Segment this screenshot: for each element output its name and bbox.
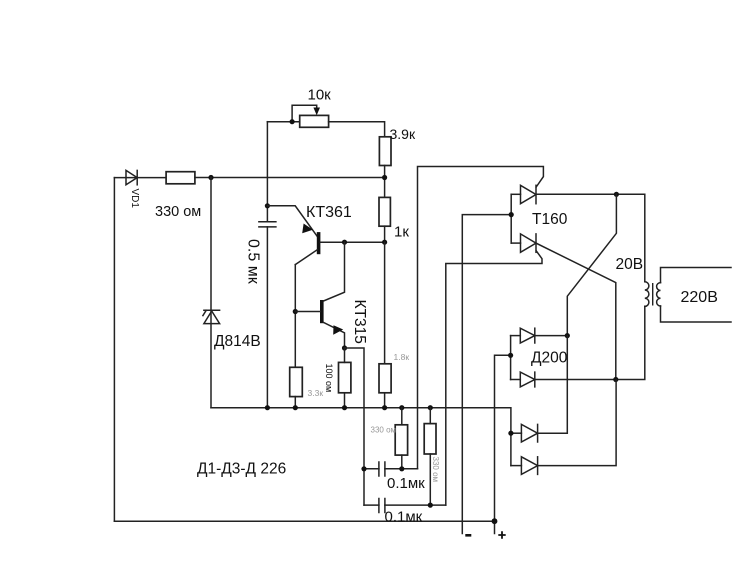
svg-text:1к: 1к (394, 224, 409, 241)
node cap2 330b (428, 503, 433, 508)
zener D814V (203, 310, 220, 323)
wire gate1 riser (418, 167, 544, 469)
svg-text:КТ361: КТ361 (306, 204, 352, 221)
wire 330a leads (401, 408, 403, 469)
wire 100om leads (344, 348, 346, 408)
wire cross link upper to D200 cathode (567, 194, 616, 335)
diode bridge 4 (511, 380, 616, 475)
svg-text:Т160: Т160 (532, 211, 568, 228)
svg-text:1.8к: 1.8к (394, 352, 410, 362)
wire 1.8k leads (384, 242, 386, 408)
node D200 anode (508, 353, 513, 358)
node rail 330a (399, 405, 404, 410)
svg-text:0.1мк: 0.1мк (385, 509, 423, 526)
diode VD1 (126, 170, 137, 184)
thyristor T160 upper (511, 185, 536, 203)
node cap1 330a (399, 466, 404, 471)
node divider top (382, 175, 387, 180)
wire thyristor anode rail (462, 194, 511, 533)
potentiometer 10k (267, 105, 384, 137)
svg-text:3.9к: 3.9к (390, 126, 416, 142)
node base-collector tie (342, 240, 347, 245)
node rail 330b (428, 405, 433, 410)
node KT315 emitter (342, 345, 347, 350)
label minus (465, 534, 471, 537)
wire gate2 riser (446, 251, 542, 505)
wire cap1 left (364, 468, 379, 470)
resistor 330 om b (424, 424, 436, 454)
wire pot left leg down (266, 122, 268, 222)
node plus junction (492, 518, 498, 524)
wire zener branch vertical (210, 178, 212, 408)
transistor KT315 (295, 242, 344, 348)
node cap1 left (361, 466, 366, 471)
wire cap1 right to gate1 (385, 468, 418, 470)
node diode3 anode (508, 431, 513, 436)
wire bottom plus bus (114, 520, 494, 522)
svg-text:10к: 10к (308, 87, 332, 104)
transistor KT361 (295, 224, 384, 265)
node D200 upper cathode (565, 333, 570, 338)
svg-text:100 ом: 100 ом (324, 364, 334, 393)
svg-text:330 ом: 330 ом (371, 426, 397, 435)
node rail 1.8k (382, 405, 387, 410)
svg-text:330 ом: 330 ом (431, 457, 440, 483)
resistor 1.8k (379, 364, 391, 393)
svg-text:Д814В: Д814В (214, 333, 261, 350)
svg-text:КТ315: КТ315 (351, 300, 368, 344)
node pot wiper tie (290, 119, 295, 124)
wire D200 anode rail to plus (495, 336, 511, 534)
label plus (498, 531, 505, 538)
wire 330b leads (429, 408, 431, 505)
wire cathode1 to winding (536, 194, 645, 281)
transformer primary winding (645, 282, 649, 307)
wire left outer vertical (113, 178, 115, 522)
thyristor T160 lower (511, 234, 536, 252)
svg-text:220В: 220В (681, 289, 718, 306)
svg-text:VD1: VD1 (129, 189, 140, 209)
node cathode1 (614, 192, 619, 197)
node KT315 base (293, 309, 298, 314)
wire cathode2 diagonal (536, 243, 616, 379)
wire ground rail (211, 408, 511, 466)
transformer core (652, 283, 654, 306)
wire emitter to caps column (345, 348, 365, 505)
capacitor 0.5 mk (259, 222, 276, 227)
resistor 3.3k (290, 367, 303, 396)
wire cap2 right to gate2 (385, 504, 446, 506)
transformer secondary winding (657, 283, 661, 306)
wire top-left through VD1 (114, 177, 166, 179)
svg-text:20В: 20В (616, 256, 644, 273)
svg-text:Д1-Д3-Д 226: Д1-Д3-Д 226 (197, 461, 286, 478)
wire secondary leads 220V (661, 268, 732, 323)
node rail 3.3k (293, 405, 298, 410)
resistor 100 om (339, 362, 351, 392)
diode D200 upper (511, 328, 568, 343)
diode bridge 3 (511, 336, 567, 442)
wire main rail to divider (195, 177, 385, 179)
node winding bottom (613, 377, 618, 382)
node rail 100om (342, 405, 347, 410)
wire 1k bottom (384, 226, 386, 242)
wire 3.9k bottom (384, 166, 386, 198)
resistor 3.9k (379, 137, 391, 166)
resistor 330 om a (395, 425, 407, 455)
resistor 330 om (left) (166, 172, 195, 184)
wire emitter branch (267, 206, 317, 237)
svg-text:0.5 мк: 0.5 мк (245, 239, 262, 285)
capacitor 0.1mk upper (379, 462, 385, 476)
diode D200 lower (511, 306, 645, 387)
capacitor 0.1mk lower (379, 499, 385, 513)
svg-text:330 ом: 330 ом (155, 204, 201, 220)
wire KT361 collector down (294, 265, 296, 368)
resistor 1k (379, 197, 390, 226)
node emitter branch (265, 203, 270, 208)
node at 330om output (208, 175, 213, 180)
svg-text:3.3к: 3.3к (308, 388, 324, 398)
node anode rail (509, 212, 514, 217)
node rail cap05 (265, 405, 270, 410)
node 1k bottom (382, 240, 387, 245)
wire cap2 left (364, 504, 379, 506)
svg-text:0.1мк: 0.1мк (387, 475, 425, 492)
wire cap bottom down (266, 227, 268, 408)
svg-text:Д200: Д200 (531, 350, 568, 367)
wire 3.3k bottom (294, 397, 296, 408)
